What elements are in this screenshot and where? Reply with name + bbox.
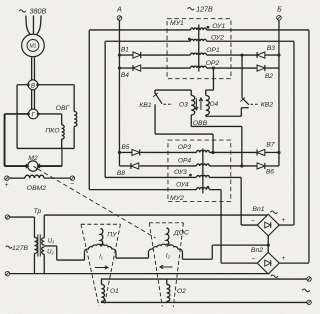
svg-text:+: +	[282, 217, 286, 224]
flux arrow up	[199, 98, 203, 110]
terminal A	[117, 16, 122, 21]
wire OU3 row left	[105, 176, 196, 178]
svg-text:I₁: I₁	[99, 253, 103, 260]
wire O3 top lead	[190, 90, 192, 95]
svg-text:ОВГ: ОВГ	[56, 105, 71, 112]
inductive setter PU dashed outline	[81, 223, 121, 225]
magnetic amplifier MU1 dashed box	[167, 19, 231, 79]
junction A-V1	[118, 53, 121, 56]
wire secondary mid tap	[44, 245, 57, 247]
label ~380V supply	[19, 10, 26, 12]
svg-text:Тр: Тр	[34, 208, 42, 215]
svg-text:В2: В2	[265, 73, 273, 80]
wire OR2 row segment A	[119, 67, 133, 69]
winding U1	[42, 238, 45, 245]
diode V3	[257, 52, 265, 58]
wire OR4 to V6	[209, 165, 256, 167]
terminal output lower	[307, 300, 311, 304]
wire Vp1 minus lead	[241, 224, 257, 226]
winding OVM2	[25, 175, 44, 178]
winding OR1	[190, 53, 206, 55]
exciter B	[28, 80, 38, 90]
wire KV1 top to O3	[155, 89, 191, 91]
wire Vp1 plus lead	[279, 224, 294, 226]
diode V8	[131, 163, 139, 169]
wire Vp1 to Vp2 ac link	[267, 236, 269, 253]
svg-text:127В: 127В	[12, 245, 28, 252]
svg-text:−: −	[251, 218, 255, 225]
wire OU1 row right	[206, 29, 309, 31]
svg-text:МУ2: МУ2	[170, 195, 184, 202]
svg-text:О4: О4	[210, 101, 219, 108]
svg-text:−: −	[70, 180, 74, 187]
wire OU1 row left	[89, 29, 190, 31]
wire O4 bottom to KV2	[206, 115, 242, 117]
svg-text:В6: В6	[266, 168, 274, 175]
svg-text:В1: В1	[121, 46, 129, 53]
svg-text:−: −	[252, 255, 256, 262]
svg-text:КВ2: КВ2	[261, 101, 274, 108]
svg-text:ОВМ2: ОВМ2	[27, 185, 46, 192]
svg-text:В7: В7	[266, 141, 274, 148]
wire OR1 to V3	[206, 54, 256, 56]
wire O4 top lead	[205, 90, 207, 95]
junction bus B-V7	[277, 151, 280, 154]
winding OU1	[190, 28, 206, 30]
label ~127V	[188, 8, 195, 10]
wire OR4 row segment A	[119, 165, 131, 167]
wire primary top	[10, 216, 35, 218]
contact KV1	[154, 90, 156, 94]
winding OU2	[190, 39, 206, 41]
svg-text:+: +	[282, 255, 286, 262]
wire OU4 row left	[89, 189, 196, 191]
wire three-phase feed to M1	[26, 15, 30, 34]
svg-text:ПУ: ПУ	[107, 231, 117, 238]
transformer primary	[33, 217, 35, 237]
terminal ~127V bottom	[5, 271, 9, 275]
svg-text:В8: В8	[117, 170, 125, 177]
diode V2	[257, 65, 265, 71]
feedback sensor DOS dashed outline	[149, 222, 183, 224]
transformer secondary leads	[43, 215, 45, 238]
ac mark Vp2	[271, 275, 278, 278]
svg-text:ОР2: ОР2	[206, 60, 220, 67]
wire M2 to loop bottom	[61, 148, 63, 166]
direction arrow right	[95, 266, 108, 270]
terminal - of OVM2	[70, 176, 74, 180]
contact KV2	[241, 55, 243, 98]
wire O3 bottom run	[190, 115, 192, 127]
diode V1	[133, 52, 141, 58]
mech link dashes KV2	[250, 103, 259, 105]
ac mark output	[302, 289, 310, 292]
wire OVM2 right	[44, 177, 70, 179]
svg-text:ОР4: ОР4	[178, 157, 192, 164]
svg-text:Вп1: Вп1	[252, 206, 264, 213]
svg-text:М1: М1	[29, 44, 36, 50]
bus A vertical	[118, 20, 120, 166]
svg-text:+: +	[5, 182, 9, 189]
winding OR4	[196, 164, 209, 166]
wire output line upper	[101, 278, 307, 280]
polarity dot OU1	[207, 26, 210, 29]
svg-text:Б: Б	[277, 6, 282, 13]
svg-text:О1: О1	[110, 288, 119, 295]
winding I2	[148, 244, 182, 252]
svg-text:ОУ1: ОУ1	[212, 23, 225, 30]
core line MU1	[198, 24, 200, 71]
core line MU2	[202, 148, 204, 193]
svg-text:ОУ4: ОУ4	[176, 182, 189, 189]
junction bus B-V3	[277, 53, 280, 56]
wire I1 to I2	[115, 252, 117, 258]
rectifier Vp2	[257, 252, 279, 274]
wire OU3 row right	[209, 176, 241, 178]
svg-text:МУ1: МУ1	[170, 20, 184, 27]
coil O3	[191, 95, 195, 115]
wire V6 to bus B	[265, 165, 279, 167]
wire V8 to OR4	[140, 165, 197, 167]
winding OR3	[196, 150, 209, 152]
diode V6	[257, 163, 265, 169]
svg-text:ОУ3: ОУ3	[174, 169, 187, 176]
svg-text:Вп2: Вп2	[251, 247, 263, 254]
wire output line lower	[101, 301, 307, 303]
wire OU4 row right	[209, 189, 221, 191]
junction KV2 tap	[240, 53, 243, 56]
wire V2 to bus B	[265, 67, 279, 69]
magnetic amplifier MU2 dashed box	[168, 140, 231, 202]
diode V5	[132, 149, 140, 155]
winding OU3	[196, 175, 209, 177]
svg-text:В3: В3	[267, 45, 275, 52]
winding PKO	[61, 114, 63, 125]
bus B vertical	[278, 20, 280, 166]
wire OU2 loop left vertical	[104, 41, 106, 177]
wire Vp2 minus lead	[221, 262, 257, 264]
terminal output upper	[307, 277, 311, 281]
wire bottom of field loop	[17, 147, 74, 149]
svg-text:ОР1: ОР1	[206, 47, 220, 54]
terminal ~127V top	[5, 215, 9, 219]
wire KV1 bottom run	[154, 104, 156, 134]
wire V1 to OR1	[142, 54, 191, 56]
wire V5 to OR3	[141, 151, 197, 153]
rotor winding squiggle DOS	[166, 228, 168, 247]
coil O2	[166, 279, 168, 284]
wire V4 to OR2	[142, 67, 191, 69]
winding OVG	[73, 85, 75, 112]
wire exciter B row	[17, 84, 74, 86]
svg-text:В4: В4	[121, 72, 129, 79]
wire left branch down	[16, 85, 18, 149]
svg-text:127В: 127В	[196, 6, 213, 13]
svg-text:КВ1: КВ1	[139, 102, 152, 109]
wire V7 to bus B	[265, 151, 279, 153]
coil O4	[206, 95, 210, 115]
wire OU2 row left	[105, 40, 190, 42]
terminal B	[277, 16, 282, 21]
polarity dot OU2	[188, 38, 191, 41]
generator G	[28, 109, 38, 119]
junction O3-OR4 line	[240, 164, 243, 167]
wire OU2 loop right vertical	[293, 41, 295, 225]
junction A-V4	[118, 66, 121, 69]
svg-text:U₂: U₂	[47, 249, 54, 255]
mech link dashes KV1	[163, 103, 173, 105]
wire OU3 to Vp1 minus	[240, 177, 242, 225]
diode V7	[257, 149, 265, 155]
shaft M1-B	[31, 57, 33, 80]
wire V3 to bus B	[265, 54, 279, 56]
wire OU2 row right	[206, 40, 294, 42]
wire OR3 to V7	[209, 151, 256, 153]
wire M2 armature row	[5, 165, 27, 167]
rectifier Vp1	[257, 214, 279, 236]
coil O1	[100, 279, 102, 284]
terminal + of OVM2	[5, 176, 9, 180]
polarity dot OU4	[207, 186, 210, 189]
junction DOS-bridge link	[267, 244, 270, 247]
winding OU4	[196, 188, 209, 190]
wire secondary top long run	[44, 214, 267, 216]
winding OR2	[190, 66, 206, 68]
wire OU4 to Vp2 minus	[220, 190, 222, 264]
wire Vp2 plus lead	[279, 262, 309, 264]
wire outer loop right vertical	[308, 30, 310, 262]
svg-text:О3: О3	[179, 101, 188, 108]
wire OR1 row segment A	[119, 54, 133, 56]
direction arrow left	[160, 265, 173, 269]
diode V4	[133, 65, 141, 71]
junction KV1-OR3 line	[211, 151, 214, 154]
wire OR3 row segment A	[119, 151, 132, 153]
svg-text:ОР3: ОР3	[178, 144, 192, 151]
wire bottom long run	[10, 273, 268, 275]
ac mark Vp1	[270, 211, 277, 214]
wire I2 to Vp bridge	[181, 252, 183, 259]
polarity dot OU3	[189, 174, 192, 177]
svg-text:В5: В5	[121, 144, 129, 151]
mechanical link M2 to DOS (dashed)	[37, 169, 155, 238]
winding I1	[84, 244, 116, 252]
svg-text:I₂: I₂	[166, 252, 171, 259]
wire G row left	[5, 113, 29, 115]
flux arrow down	[195, 98, 199, 110]
svg-text:В: В	[31, 83, 35, 90]
svg-text:ДОС: ДОС	[173, 229, 189, 236]
wire OVM2 left	[9, 177, 25, 179]
svg-text:ПКО: ПКО	[45, 127, 60, 134]
rotor winding squiggle PU	[100, 228, 102, 246]
motor M1	[22, 34, 45, 57]
wire G row right	[38, 113, 62, 115]
svg-text:U₁: U₁	[48, 238, 54, 244]
transformer core	[37, 234, 39, 256]
label ~127V source	[6, 246, 12, 248]
wire OR2 to V2	[206, 67, 256, 69]
winding U2	[42, 247, 45, 254]
shaft B-G	[31, 90, 33, 110]
svg-text:380В: 380В	[30, 6, 47, 15]
machine M2	[28, 161, 38, 171]
junction A-V5	[118, 151, 121, 154]
svg-text:О2: О2	[177, 288, 186, 295]
svg-text:А: А	[116, 6, 122, 13]
wire outer loop left vertical	[88, 30, 90, 190]
wire KV2 bottom contact	[241, 107, 248, 109]
wire left armature bus	[4, 114, 6, 166]
